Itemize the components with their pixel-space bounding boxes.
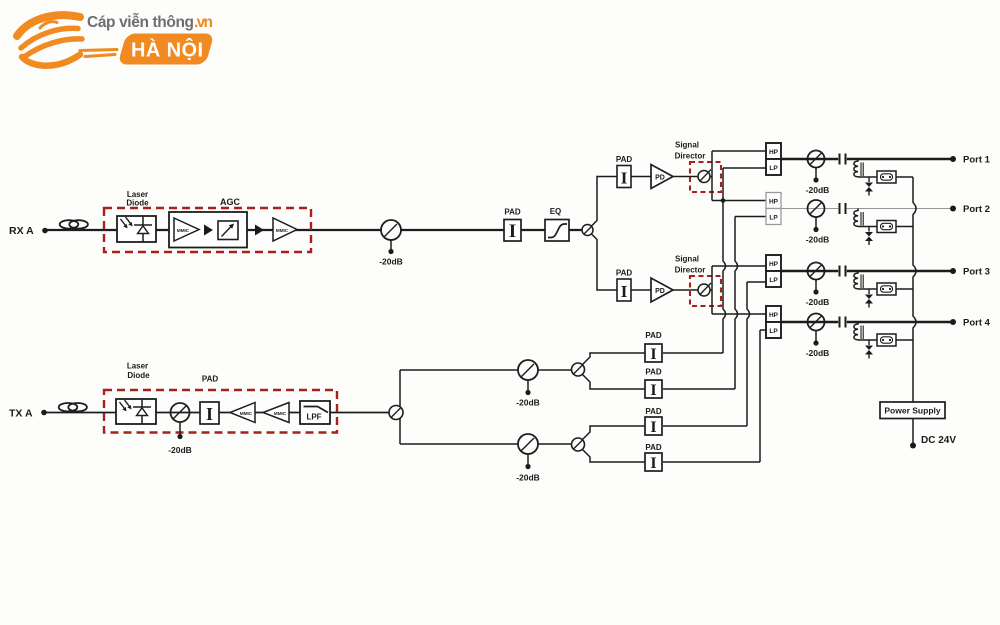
svg-text:Cáp viễn thông: Cáp viễn thông [87, 14, 194, 31]
wire [631, 289, 651, 291]
svg-text:Port 2: Port 2 [963, 204, 990, 215]
svg-text:TX A: TX A [9, 408, 33, 420]
wire RX trunk right [401, 229, 582, 231]
pad attenuator (RX trunk) [504, 220, 521, 242]
wire S2 to PAD1 [583, 353, 646, 365]
svg-text:Signal: Signal [675, 255, 699, 264]
wire splitter to lower branch [592, 234, 618, 290]
node Port 4 dot [950, 319, 956, 325]
node DC 24V terminal [910, 443, 916, 449]
diplexer LP filter (port 1) [766, 159, 781, 175]
bias tee network (port 3) [840, 266, 914, 308]
wire Port 2 line (faint) [781, 208, 953, 210]
diplexer LP filter (port 4) [766, 322, 781, 338]
svg-text:PAD: PAD [645, 368, 662, 377]
diplexer HP filter (port 2, faint) [766, 193, 781, 209]
svg-text:HP: HP [769, 312, 779, 319]
coupler tap -20dB (TX input) [171, 403, 190, 422]
svg-text:MMIC: MMIC [276, 228, 289, 233]
arrow [204, 225, 213, 236]
svg-text:Power Supply: Power Supply [884, 406, 940, 416]
svg-text:-20dB: -20dB [379, 257, 403, 267]
wire TX upper branch [400, 369, 572, 371]
wire DC bus with hops [913, 177, 916, 402]
equalizer EQ [545, 220, 569, 242]
pad attenuator P4 [645, 453, 662, 471]
amplifier MMIC A1 [174, 218, 199, 241]
svg-text:PD: PD [655, 175, 665, 182]
svg-text:Port 4: Port 4 [963, 318, 991, 329]
svg-text:I: I [621, 169, 628, 188]
svg-text:LP: LP [769, 277, 778, 284]
svg-text:I: I [206, 404, 213, 424]
bias tee network (port 2) [840, 203, 914, 245]
wire PAD3 output [663, 425, 747, 427]
svg-text:I: I [621, 282, 628, 301]
AGC block U1 [169, 212, 247, 248]
splitter S3 (lower) [572, 438, 585, 451]
wire [673, 176, 698, 178]
signal director SD2 switch [698, 284, 710, 296]
wire RX trunk [47, 229, 381, 231]
diplexer HP filter (port 3) [766, 255, 781, 271]
low pass filter LPF [300, 401, 330, 424]
pad attenuator P2 [645, 380, 662, 398]
wire LP4 riser [760, 330, 766, 462]
pad attenuator (branch 1) [617, 166, 631, 188]
junction dot [721, 198, 726, 203]
svg-text:Port 1: Port 1 [963, 155, 991, 166]
amplifier PD1 [651, 165, 673, 189]
wire TX lower branch [400, 443, 572, 445]
node Port 1 dot [950, 156, 956, 162]
svg-text:Laser: Laser [127, 362, 148, 371]
amplifier MMIC A3 (left-pointing) [230, 403, 255, 423]
wire Port 3 line [781, 270, 953, 272]
wire S3 to PAD4 [583, 450, 646, 463]
coupler tap -20dB (port 4) [808, 314, 825, 346]
svg-text:LP: LP [769, 328, 778, 335]
node RX A terminal dot [42, 228, 48, 234]
wire to HP4 [712, 313, 766, 315]
svg-text:-20dB: -20dB [516, 398, 540, 408]
wire LP3 riser [747, 282, 766, 426]
RX optical module dashed boundary [104, 208, 311, 252]
wire TX trunk [46, 412, 389, 414]
svg-text:-20dB: -20dB [806, 235, 830, 245]
pad attenuator P3 [645, 417, 662, 435]
svg-text:RX A: RX A [9, 225, 34, 237]
amplifier PD2 [651, 278, 673, 302]
svg-text:I: I [650, 346, 656, 363]
svg-text:DC 24V: DC 24V [921, 435, 956, 446]
svg-text:.vn: .vn [194, 14, 213, 31]
signal director SD1 dashed box [690, 162, 721, 192]
svg-text:HP: HP [769, 149, 779, 156]
wire PAD2 output [663, 388, 735, 390]
svg-text:LP: LP [769, 215, 778, 222]
svg-text:I: I [650, 382, 656, 399]
pad attenuator (TX) [200, 402, 219, 424]
svg-text:Diode: Diode [126, 199, 149, 208]
svg-text:PAD: PAD [645, 407, 662, 416]
wire Port 4 line [781, 321, 953, 323]
svg-text:Port 3: Port 3 [963, 267, 990, 278]
svg-text:HÀ NỘI: HÀ NỘI [131, 38, 203, 62]
svg-text:Diode: Diode [127, 371, 150, 380]
svg-text:MMIC: MMIC [177, 228, 190, 233]
svg-text:LPF: LPF [306, 413, 321, 422]
svg-text:Signal: Signal [675, 141, 699, 150]
laser diode LD2 (TX) [116, 399, 156, 424]
arrow [255, 225, 264, 236]
power supply PS1 [880, 402, 945, 419]
coupler tap -20dB (port 1) [808, 151, 825, 183]
wire SD2 output [710, 289, 712, 291]
svg-text:HP: HP [769, 199, 779, 206]
svg-text:I: I [650, 419, 656, 436]
pad attenuator (branch 2) [617, 279, 631, 301]
signal director SD2 dashed box [690, 276, 721, 306]
node TX A terminal dot [41, 410, 47, 416]
svg-text:-20dB: -20dB [168, 445, 192, 455]
bias tee network (port 1): blocking cap, RF choke, fuse F1, TVS D1 [840, 154, 914, 196]
fiber coil (RX input) [60, 220, 79, 228]
svg-text:-20dB: -20dB [806, 185, 830, 195]
fiber coil (TX input) [59, 403, 78, 411]
logo swirl icon [17, 15, 117, 66]
svg-text:EQ: EQ [550, 207, 562, 216]
diplexer HP filter (port 1) [766, 143, 781, 159]
wire [673, 289, 698, 291]
coupler tap -20dB (port 2) [808, 200, 825, 232]
diplexer LP filter (port 2, faint) [766, 209, 781, 225]
amplifier MMIC A2 [273, 218, 297, 241]
splitter S1 [582, 225, 593, 236]
svg-text:PAD: PAD [616, 269, 633, 278]
svg-text:I: I [509, 221, 516, 242]
wire LP2 riser [735, 217, 766, 390]
svg-text:MMIC: MMIC [274, 411, 287, 416]
wire Port 1 line [781, 158, 953, 160]
combiner C1 [389, 406, 403, 420]
wire to HP3 [712, 265, 766, 267]
svg-text:-20dB: -20dB [806, 348, 830, 358]
svg-text:-20dB: -20dB [806, 297, 830, 307]
coupler tap -20dB (port 3) [808, 263, 825, 295]
svg-text:Director: Director [675, 266, 706, 275]
node Port 3 dot [950, 268, 956, 274]
bias tee network (port 4) [840, 317, 914, 359]
svg-text:PAD: PAD [202, 375, 219, 384]
laser diode LD1 (RX) [117, 216, 156, 242]
svg-text:PAD: PAD [645, 443, 662, 452]
svg-text:AGC: AGC [220, 197, 241, 207]
node Port 2 dot [950, 206, 956, 212]
wire to HP2 [712, 200, 766, 202]
diplexer LP filter (port 3) [766, 271, 781, 287]
diplexer HP filter (port 4) [766, 306, 781, 322]
wire PAD1 output [663, 352, 723, 354]
wire combiner vertical [399, 370, 401, 444]
svg-text:I: I [650, 455, 656, 472]
svg-text:Director: Director [675, 152, 706, 161]
amplifier MMIC A4 (left-pointing) [263, 403, 289, 423]
svg-text:LP: LP [769, 165, 778, 172]
wire splitter to upper branch [592, 177, 618, 227]
coupler tap -20dB (RX trunk) [381, 220, 401, 240]
pad attenuator P1 [645, 344, 662, 362]
svg-text:PAD: PAD [504, 208, 521, 217]
wire [631, 176, 651, 178]
wire SD1 output [710, 176, 712, 178]
splitter S2 (upper) [572, 363, 585, 376]
wire S3 to PAD3 [583, 426, 646, 440]
svg-text:HP: HP [769, 261, 779, 268]
svg-text:PAD: PAD [616, 155, 633, 164]
svg-text:MMIC: MMIC [240, 411, 253, 416]
svg-text:-20dB: -20dB [516, 473, 540, 483]
wire SD1 fork vertical [711, 151, 713, 201]
TX optical module dashed boundary [104, 390, 337, 433]
wire PAD4 output [663, 461, 760, 463]
variable attenuator AT1 [218, 221, 238, 240]
coupler tap -20dB (TX lower) [518, 434, 538, 454]
wire to HP1 [712, 150, 766, 152]
wire LP1 riser [723, 168, 766, 353]
wire PS to DC terminal [912, 419, 914, 446]
logo badge HA NOI [118, 34, 215, 65]
wire SD2 fork vertical [711, 266, 713, 314]
signal director SD1 switch [698, 171, 710, 183]
svg-text:PAD: PAD [645, 331, 662, 340]
coupler tap -20dB (TX upper) [518, 360, 538, 380]
svg-text:PD: PD [655, 288, 665, 295]
wire S2 to PAD2 [583, 375, 646, 390]
